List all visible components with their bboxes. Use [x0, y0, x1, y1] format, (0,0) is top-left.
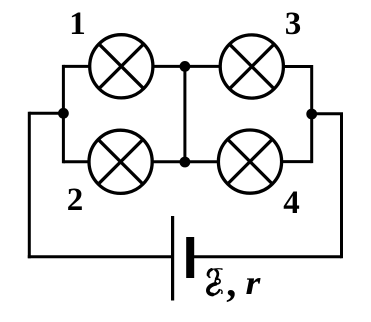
battery cell: long plate	[171, 216, 174, 301]
wire: outer left vertical	[28, 112, 31, 258]
wire: top middle horizontal (lamp1 to lamp3)	[153, 65, 220, 68]
lamp 4	[218, 130, 281, 193]
lamp 1	[90, 35, 153, 98]
node B stub: right junction to outer loop	[312, 112, 343, 115]
node C (top middle junction dot)	[180, 61, 191, 72]
lamp 2	[89, 130, 152, 193]
wire: bottom right horizontal from battery	[190, 255, 342, 258]
svg-text:,: ,	[226, 260, 236, 305]
lamp 3	[220, 35, 283, 98]
node A (left junction dot)	[58, 108, 69, 119]
wire: bottom left horizontal to battery	[28, 255, 173, 258]
svg-text:1: 1	[69, 6, 86, 42]
svg-text:2: 2	[67, 182, 84, 218]
svg-text:r: r	[246, 264, 262, 302]
wire: lamp3 right lead	[283, 65, 312, 68]
wire: lamp4 right lead	[281, 160, 312, 163]
node D (bottom middle junction dot)	[180, 157, 191, 168]
svg-text:4: 4	[283, 185, 300, 221]
battery cell: short thick plate	[186, 237, 194, 278]
wire: outer right vertical	[340, 114, 343, 259]
wire: lamp1 left lead	[63, 65, 90, 68]
wire: right inner vertical (lamp3 to lamp4)	[310, 65, 313, 163]
wire: lamp2 left lead	[63, 160, 90, 163]
wire: left inner vertical (lamp1 to lamp2)	[62, 65, 65, 163]
node B (right junction dot)	[306, 109, 317, 120]
svg-text:3: 3	[285, 6, 302, 42]
wire: bottom middle horizontal (lamp2 to lamp4)	[152, 160, 219, 163]
wire: middle vertical bridge	[183, 66, 186, 162]
node A stub: left junction to outer loop	[29, 112, 63, 115]
label EMF script E (drawn glyph)	[208, 268, 223, 294]
